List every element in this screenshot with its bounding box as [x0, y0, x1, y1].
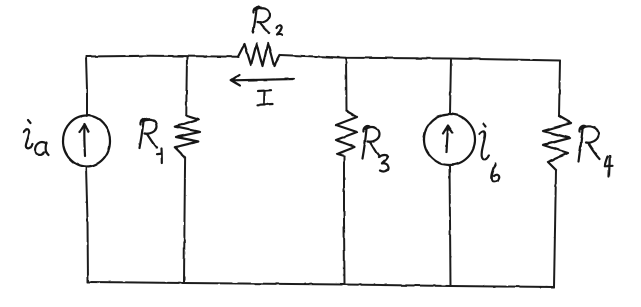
label i_a	[24, 120, 49, 156]
wire: right vertical (top-right corner down to R4)	[559, 61, 560, 117]
label I	[258, 90, 274, 105]
wire: R4 bottom lead	[554, 170, 556, 287]
current source ia (circle with up arrow)	[63, 116, 110, 167]
wire: ib top lead from rail	[450, 59, 451, 115]
resistor R2 (zigzag, inline in top rail)	[238, 43, 280, 66]
resistor R4 (vertical zigzag)	[543, 116, 571, 170]
wire: R1 top lead from rail	[185, 57, 188, 116]
wire: ia bottom lead	[86, 167, 88, 283]
label R1	[140, 119, 162, 163]
label R3	[363, 126, 389, 171]
wire: left vertical (top rail down to ia)	[86, 57, 87, 117]
label R2	[253, 7, 283, 35]
current arrow I (pointing left under R2)	[231, 75, 294, 86]
wire: R3 top lead from rail	[345, 58, 348, 111]
wire: R1 bottom lead	[184, 158, 185, 284]
label i_b	[480, 124, 500, 182]
resistor R3 (vertical zigzag)	[336, 111, 357, 156]
wire: top rail left segment (top-left corner to R2)	[86, 56, 238, 57]
resistor R1 (vertical zigzag)	[175, 115, 200, 157]
wire: R3 bottom lead	[343, 156, 346, 285]
wire: bottom rail	[88, 282, 554, 287]
current source ib (circle with up arrow)	[424, 114, 475, 165]
wire: ib bottom lead	[450, 166, 451, 287]
label R4	[579, 126, 613, 176]
wire: top rail right segment (R2 to top-right corner)	[280, 55, 560, 61]
